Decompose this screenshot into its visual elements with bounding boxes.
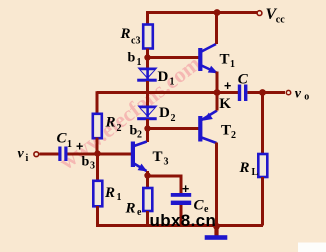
terminal vi circle [34,152,39,157]
wire: b2 to T2 base [148,127,200,130]
resistor Rc3 [143,25,153,49]
node T3 emitter junction dot [144,172,150,178]
wire: T1 emitter down to node K [216,72,219,93]
svg-text:1: 1 [67,139,72,150]
wire: C1 to b3 and on to T3 base [68,153,133,156]
svg-text:b: b [82,155,90,170]
node b1 junction dot [144,54,150,60]
svg-text:cc: cc [276,15,285,26]
capacitor C1 [58,147,67,162]
wire: b3 down to R1 [96,154,99,182]
wire: C to vo terminal [248,91,286,94]
svg-text:3: 3 [164,157,169,168]
wire: T2 collector down to rail junction [215,143,218,228]
svg-text:c3: c3 [131,36,140,47]
svg-text:+: + [182,182,189,196]
resistor R1 [93,181,102,207]
wire: R2 bottom lead to node b3 [96,138,99,154]
svg-text:1: 1 [230,59,235,70]
wire: D2 cathode to node b2 [146,119,149,129]
svg-text:R: R [104,185,115,201]
wire: b1 down to D1 anode [146,58,149,69]
wire: node K to capacitor C [217,91,238,94]
svg-text:R: R [239,160,250,176]
wire: T3 emitter to junction [146,171,149,176]
svg-text:R: R [125,201,136,217]
wire: b1 to T1 base [148,56,200,59]
node b3 junction dot [94,150,100,156]
wire: T2 emitter up to node K [216,93,219,111]
svg-text:2: 2 [171,113,176,124]
wire: mid bus from R2 corner to node K [97,91,217,94]
svg-text:2: 2 [231,130,236,141]
svg-text:K: K [219,96,231,112]
svg-text:1: 1 [117,192,122,203]
svg-text:D: D [158,69,169,85]
svg-text:1: 1 [137,57,142,68]
svg-text:T: T [220,52,230,68]
transistor T3 [131,142,148,172]
wire: Rc3 bottom lead to node b1 [146,49,149,59]
terminal vo circle [286,90,290,94]
wire: vi to C1 [40,153,59,156]
node vo junction dot [259,89,266,96]
wire: emitter junction right then down to Ce [148,176,182,193]
svg-text:1: 1 [170,77,175,88]
wire: T1 collector up to rail [215,13,218,45]
wire: b2 down to T3 collector [146,129,149,143]
svg-text:3: 3 [90,161,95,172]
transistor T1 [198,44,218,73]
svg-text:2: 2 [117,123,122,134]
capacitor C [238,85,248,102]
resistor Re [143,188,152,211]
diode D1 [137,68,158,82]
svg-text:T: T [153,149,163,165]
svg-text:+: + [76,139,83,153]
node K junction dot [214,89,221,96]
wire: emitter junction down to Re [146,176,149,189]
wire: vo junction down to RL [261,93,264,155]
svg-text:R: R [105,115,116,131]
wire: mid bus down to D2 anode [146,93,149,107]
svg-text:i: i [26,153,29,164]
diode D2 [137,106,158,121]
transistor T2 [198,111,217,144]
wire: D1 cathode to mid bus [146,81,149,94]
svg-text:C: C [238,72,249,88]
svg-text:R: R [120,26,131,42]
svg-text:C: C [57,131,68,147]
svg-text:D: D [159,105,170,121]
ground [205,227,228,240]
terminal Vcc circle [257,11,262,16]
svg-text:2: 2 [137,130,142,141]
svg-text:o: o [304,91,309,102]
resistor R2 [93,114,102,138]
svg-text:L: L [252,167,259,178]
resistor RL [258,154,267,177]
wire: Re bottom to rail [146,211,149,226]
wire: RL bottom to rail corner [261,177,264,226]
svg-text:T: T [221,123,231,139]
svg-text:ubx8.cn: ubx8.cn [150,211,217,230]
svg-text:e: e [137,207,142,218]
node top rail junction dot [214,9,221,16]
wire: top Vcc rail [146,11,258,14]
svg-text:v: v [18,147,25,162]
node b2 junction dot [144,125,150,131]
node bottom rail junction dot [213,223,220,230]
capacitor Ce [171,193,191,205]
svg-text:+: + [224,79,231,93]
wire: Ce bottom lead to rail [180,205,183,226]
wire: R1 bottom to ground rail corner [98,206,111,226]
svg-text:b: b [128,51,136,66]
wire: bottom ground rail [96,224,263,227]
svg-text:v: v [295,87,302,102]
wire: R2 top corner from mid bus [96,91,99,114]
wire: Rc3 top lead from rail [146,11,149,24]
white patch bottom right [298,243,326,252]
